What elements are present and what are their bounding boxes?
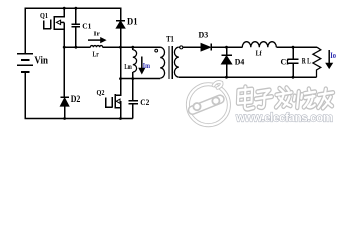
svg-text:Ir: Ir [94, 31, 101, 37]
svg-text:Io: Io [330, 51, 336, 60]
diode D1 [116, 8, 125, 48]
transformer T1 core lines [169, 46, 172, 79]
svg-text:Lm: Lm [124, 63, 131, 71]
transformer T1 secondary winding [174, 47, 178, 77]
svg-text:www.elecfans.com: www.elecfans.com [235, 113, 333, 125]
resistor RL zigzag [313, 47, 321, 77]
capacitor Cf [288, 47, 299, 77]
watermark chinese char dian [238, 87, 254, 109]
svg-text:C2: C2 [140, 97, 149, 107]
capacitor C1 [72, 8, 80, 48]
junction dot D2 anode / bottom rail [63, 117, 66, 120]
transformer polarity dot secondary [180, 46, 183, 49]
junction dot D4 cathode / secondary top wire [225, 46, 228, 49]
battery Vin plates [17, 54, 33, 72]
svg-text:C1: C1 [82, 21, 91, 30]
junction dot Cf bottom / secondary bottom wire [292, 76, 295, 79]
junction dot C1 top / top rail [75, 7, 78, 10]
capacitor C2 [128, 79, 138, 119]
junction dot Q1 drain / top rail [63, 7, 66, 10]
svg-text:D4: D4 [235, 57, 245, 66]
current arrow Io [326, 50, 333, 68]
wire battery bottom to bottom rail [24, 73, 26, 118]
wire node B vertical D1 anode to Q2 drain [120, 47, 122, 78]
inductor Lr [90, 45, 102, 47]
wire node B to Lm top [121, 46, 133, 48]
svg-text:Cf: Cf [281, 57, 290, 67]
transistor Q2 [106, 79, 121, 119]
watermark chinese char fa [276, 88, 292, 107]
watermark chinese char zi [256, 90, 272, 108]
wire mid node A to Lr [64, 46, 90, 48]
wire secondary bottom [179, 76, 317, 78]
svg-text:D1: D1 [127, 16, 138, 26]
diode D2 [60, 97, 69, 118]
svg-text:Q2: Q2 [97, 89, 105, 97]
junction dot C1 bottom / mid wire [75, 46, 78, 49]
inductor Lf [242, 42, 276, 48]
wire lower mid node B to primary bottom [121, 78, 161, 80]
junction dot Q2 source / bottom rail [119, 117, 122, 120]
svg-text:Im: Im [143, 61, 151, 70]
junction dot Lm bottom / C2 top [131, 77, 134, 80]
svg-text:Lf: Lf [256, 50, 263, 58]
svg-text:Lr: Lr [93, 50, 100, 58]
transformer T1 primary winding [160, 47, 165, 78]
wire D2 branch vertical node A down [63, 47, 65, 97]
watermark logo circle [188, 82, 229, 125]
current arrow Ir [88, 38, 106, 43]
svg-text:D3: D3 [199, 31, 209, 40]
watermark chinese char shao [294, 89, 315, 108]
current arrow Im [139, 57, 145, 74]
diode D4 [221, 47, 231, 77]
svg-text:R L: R L [302, 57, 311, 66]
junction dot node B lower / Q2 drain [119, 77, 122, 80]
wire left vertical from rail to battery [24, 8, 26, 54]
wire top rail [25, 7, 121, 9]
inductor Lm [133, 47, 137, 78]
junction dot D4 anode / secondary bottom wire [225, 76, 228, 79]
transistor Q1 [44, 8, 65, 48]
junction dot node A (Q1 source, C1, D2, Lr) [63, 46, 66, 49]
wire secondary top to D3 anode [179, 46, 201, 48]
wire Lm top to transformer primary [133, 46, 160, 48]
svg-text:Vin: Vin [34, 56, 48, 67]
watermark chinese char you [318, 89, 333, 108]
wire Lr to node B [103, 46, 121, 48]
junction dot Cf top / output wire [292, 46, 295, 49]
wire D3 cathode to Lf [211, 46, 242, 48]
svg-text:D2: D2 [71, 94, 81, 104]
wire bottom rail [25, 118, 133, 120]
junction dot Lm top / mid wire [131, 46, 134, 49]
transformer polarity dot primary [155, 49, 158, 52]
junction dot node B (Lr right, D1 anode) [119, 46, 122, 49]
svg-text:T1: T1 [166, 34, 174, 44]
wire Lf to RL top [276, 46, 317, 48]
diode D3 [201, 43, 211, 51]
svg-text:Q1: Q1 [40, 12, 48, 20]
